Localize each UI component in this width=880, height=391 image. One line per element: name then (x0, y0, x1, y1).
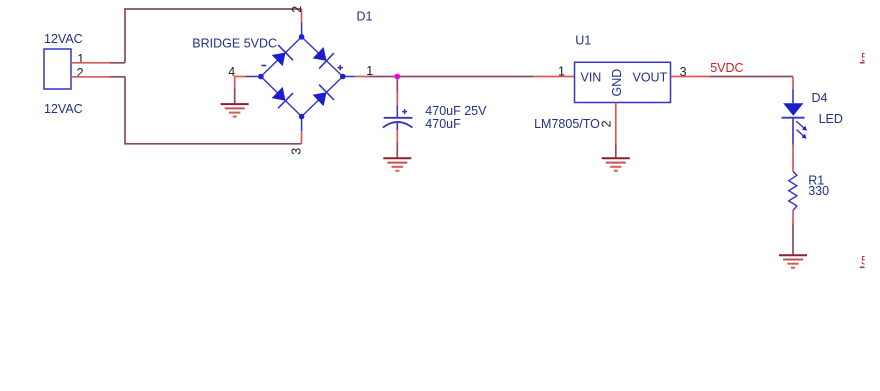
wire red stub U1 gnd (615, 103, 617, 146)
wire maroon to ground (396, 143, 398, 159)
diode (bridge bottom-left) (272, 87, 293, 108)
diode (bridge top-left) (272, 45, 293, 66)
wire red stub U1 pin3 (671, 76, 711, 78)
wire red stub cap top (396, 92, 398, 106)
wire red stub R1 bottom (792, 211, 794, 225)
junction node (394, 74, 400, 80)
resistor R1 (789, 172, 797, 211)
svg-text:2: 2 (77, 66, 84, 80)
capacitor C1 (383, 106, 413, 131)
connector J1 12VAC (44, 49, 71, 89)
wire bottom horizontal (124, 143, 301, 145)
wire vertical up (124, 9, 126, 63)
bridge vertex dots (258, 34, 346, 119)
LED D4 (782, 90, 808, 145)
svg-text:VIN: VIN (581, 70, 602, 84)
wire maroon to LED column (710, 76, 793, 78)
wire maroon to ground (792, 224, 794, 256)
svg-text:12VAC: 12VAC (44, 102, 83, 116)
wire pin1 stub red (71, 62, 111, 64)
wire red stub pin4 (234, 76, 246, 78)
wire pin2 stub red (71, 76, 111, 78)
svg-text:5VDC: 5VDC (710, 61, 743, 75)
svg-text:D1: D1 (357, 10, 373, 24)
clipped net label 5VDC (top right) (860, 52, 880, 267)
wire red down to LED (792, 77, 794, 91)
svg-text:3: 3 (289, 148, 303, 155)
wire top horizontal (124, 8, 301, 10)
ground (capacitor) (383, 158, 411, 171)
bridge rectifier D1 body (246, 23, 356, 131)
wire vertical down (124, 77, 126, 144)
svg-text:2: 2 (290, 6, 304, 13)
wire maroon to U1 (369, 76, 533, 78)
wire maroon to ground (234, 89, 236, 104)
ground (bridge) (221, 104, 249, 117)
svg-text:12VAC: 12VAC (44, 32, 83, 46)
svg-text:U1: U1 (575, 34, 591, 48)
ground (U1) (602, 158, 630, 171)
wire maroon below junction (396, 78, 398, 93)
wire red LED to R1 (792, 144, 794, 171)
svg-text:470uF: 470uF (425, 117, 461, 131)
wire red stub cap bottom (396, 130, 398, 144)
svg-text:1: 1 (558, 64, 565, 78)
wire red stub bridge pin1 (356, 76, 370, 78)
svg-text:1: 1 (77, 52, 84, 66)
diode (bridge top-right) (313, 47, 334, 69)
svg-text:LM7805/TO: LM7805/TO (534, 117, 600, 131)
diode (bridge bottom-right) (313, 85, 334, 107)
minus mark (bridge) (262, 65, 267, 67)
wire red down (234, 77, 236, 91)
svg-text:BRIDGE 5VDC: BRIDGE 5VDC (192, 36, 277, 50)
svg-text:VOUT: VOUT (633, 70, 668, 84)
regulator U1 box (575, 62, 671, 102)
wire maroon to ground (615, 145, 617, 159)
wire maroon to corner (110, 62, 125, 64)
ground (R1) (779, 255, 807, 268)
svg-text:330: 330 (808, 184, 829, 198)
plus mark (bridge) (338, 65, 343, 70)
wire red stub U1 pin1 (533, 76, 574, 78)
svg-text:D4: D4 (812, 91, 828, 105)
wire red stub to bridge pin3 (301, 131, 303, 144)
wire red stub to bridge pin2 (301, 9, 303, 23)
svg-text:GND: GND (610, 69, 624, 97)
svg-text:LED: LED (819, 112, 843, 126)
svg-text:2: 2 (599, 120, 613, 127)
wire maroon to corner (110, 76, 125, 78)
